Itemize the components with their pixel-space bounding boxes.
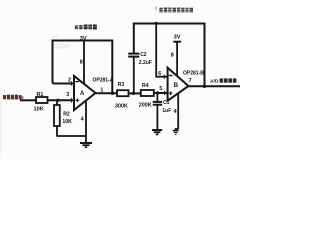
capacitor C1 (156, 93, 158, 102)
wire: U1B output to A/D (188, 85, 240, 87)
node N1 (C2 tap) (132, 92, 135, 95)
svg-text:R1: R1 (37, 92, 44, 98)
pin8 lead U1A (83, 41, 85, 85)
svg-text:R2: R2 (63, 111, 70, 117)
feedback wire to pin6 (156, 24, 167, 77)
svg-text:1: 1 (100, 87, 103, 93)
op-amp U1A (74, 76, 96, 110)
node N2 (C1 tap) (156, 91, 159, 94)
resistor R1 (36, 97, 48, 103)
resistor R3 (117, 90, 129, 96)
ground (U1A / R2) (80, 142, 92, 144)
scan smudge artifacts (0, 6, 157, 158)
wire: input to R1 (20, 99, 36, 101)
pin tick pin2 (71, 81, 73, 85)
svg-text:2.2uF: 2.2uF (139, 60, 152, 66)
svg-text:A/D: A/D (210, 78, 219, 84)
svg-text:C2: C2 (140, 52, 147, 58)
svg-text:300K: 300K (115, 103, 128, 109)
ground (U1B) (173, 130, 179, 132)
svg-text:A: A (80, 91, 85, 97)
title right: 二阶低通滤波电路 (tiny blobs) (159, 8, 193, 13)
resistor R4 (141, 90, 154, 96)
pin tick pin6 (163, 75, 165, 79)
svg-text:5: 5 (159, 86, 162, 92)
svg-text:OP281-B: OP281-B (183, 70, 204, 76)
wire: R2 bottom to ground joint (56, 126, 58, 136)
node: output/box junction (203, 85, 206, 88)
ground (C1) (152, 129, 162, 131)
wire: U1A output (95, 92, 117, 94)
svg-text:10K: 10K (34, 107, 44, 113)
op-amp U1A pin4 lead (85, 102, 87, 144)
svg-text:4: 4 (81, 117, 84, 123)
wire: feedback to pin2 (53, 83, 75, 85)
right box: rail + C2 drop + output drop (134, 24, 205, 87)
svg-text:OP281-A: OP281-A (93, 77, 114, 83)
svg-text:10K: 10K (62, 119, 72, 125)
svg-text:6: 6 (158, 71, 161, 77)
sensor input label 传感器输入 (maroon blobs) (3, 95, 23, 100)
resistor R2 (56, 100, 58, 105)
svg-text:3: 3 (66, 92, 69, 98)
svg-text:7: 7 (189, 78, 192, 84)
svg-text:8: 8 (171, 52, 174, 58)
title left: 信号调理器 (tiny blobs) (75, 25, 97, 30)
pin tick pin3 (70, 98, 72, 103)
node J1 (56, 99, 59, 102)
node: feedback junction (111, 92, 114, 95)
svg-text:8: 8 (80, 60, 83, 66)
svg-text:200K: 200K (139, 102, 152, 108)
svg-text:2: 2 (68, 77, 71, 83)
svg-text:3V: 3V (174, 35, 181, 41)
wire: R4 to pin5 of U1B (154, 92, 168, 94)
pin4 lead U1B (177, 94, 179, 129)
svg-text:4: 4 (174, 109, 177, 115)
svg-text:B: B (174, 83, 179, 89)
svg-text:R3: R3 (118, 82, 125, 88)
wire: R1 to pin3 of U1A (48, 99, 75, 101)
wire: R3 to R4 (129, 92, 141, 94)
op-amp U1B (168, 68, 189, 101)
svg-text:1uF: 1uF (162, 108, 171, 114)
capacitor C2 (133, 57, 135, 94)
feedback loop wire (left box) (53, 41, 113, 94)
pin tick pin5 (164, 91, 166, 95)
svg-text:R4: R4 (142, 83, 149, 89)
node on rail (pin6 feedback) (155, 22, 158, 25)
